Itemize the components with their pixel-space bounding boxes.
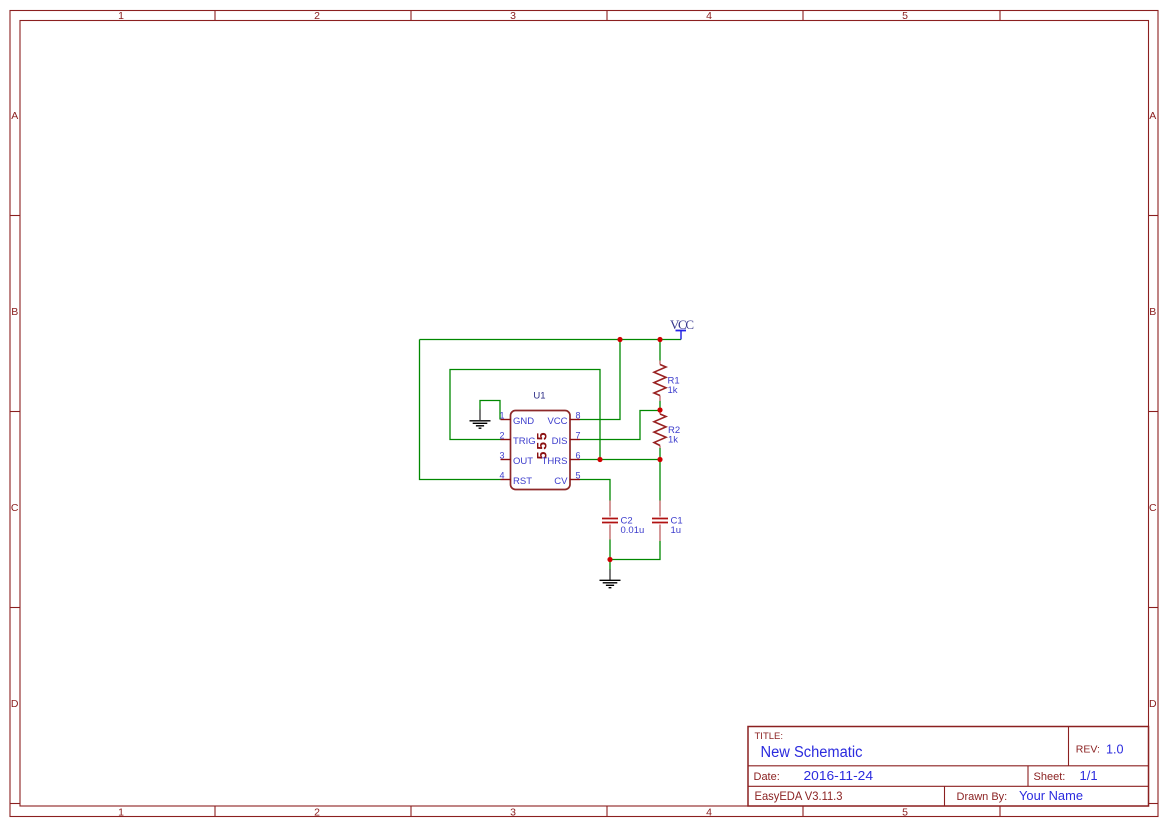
svg-text:8: 8 <box>576 411 581 421</box>
svg-text:B: B <box>1149 306 1156 318</box>
ground GND1 (pin 1) <box>470 410 491 429</box>
U1 pin 4 RST <box>499 471 532 487</box>
wire TRIG to THRS loop <box>450 370 600 460</box>
junction C2/ground <box>607 557 612 562</box>
label C1 1u <box>671 516 683 537</box>
svg-text:CV: CV <box>554 476 568 487</box>
svg-text:2: 2 <box>499 431 504 441</box>
svg-text:0.01u: 0.01u <box>621 525 645 536</box>
svg-text:1/1: 1/1 <box>1080 768 1098 783</box>
svg-text:U1: U1 <box>533 391 545 402</box>
svg-text:5: 5 <box>576 471 581 481</box>
wire RST to VCC rail (left loop) <box>420 340 501 480</box>
capacitor C2 <box>602 501 618 540</box>
svg-text:1k: 1k <box>668 385 678 396</box>
svg-text:4: 4 <box>706 10 712 22</box>
U1 pin 3 OUT <box>499 451 533 467</box>
wire VCC top rail <box>420 339 682 341</box>
label C2 0.01u <box>621 516 645 537</box>
svg-text:5: 5 <box>902 10 908 22</box>
svg-text:5: 5 <box>902 807 908 819</box>
svg-text:GND: GND <box>513 416 534 427</box>
svg-text:D: D <box>11 698 19 710</box>
wire pin8 VCC to rail <box>580 340 620 420</box>
svg-text:A: A <box>1149 110 1156 122</box>
svg-text:1k: 1k <box>668 434 678 445</box>
svg-text:1: 1 <box>118 10 124 22</box>
svg-text:REV:: REV: <box>1076 744 1100 756</box>
junction THRS/R2/C1 <box>657 457 662 462</box>
wire C2 bottom to ground node <box>609 540 611 560</box>
IC U1 555 body <box>511 411 571 490</box>
wire pin1 GND to ground <box>480 401 500 420</box>
svg-text:1u: 1u <box>671 525 682 536</box>
ground GND2 (C2/C1 bottom) <box>600 570 621 588</box>
svg-text:THRS: THRS <box>542 456 568 467</box>
svg-text:OUT: OUT <box>513 456 533 467</box>
svg-text:VCC: VCC <box>547 416 567 427</box>
svg-text:4: 4 <box>499 471 504 481</box>
svg-text:1: 1 <box>499 411 504 421</box>
power flag VCC <box>670 317 694 340</box>
U1 pin 7 DIS <box>552 431 581 447</box>
svg-text:1.0: 1.0 <box>1106 742 1124 757</box>
svg-text:C: C <box>1149 502 1157 514</box>
svg-text:TITLE:: TITLE: <box>755 731 784 742</box>
resistor R2 <box>654 410 666 460</box>
svg-text:3: 3 <box>510 10 516 22</box>
wire CV to C2 top <box>580 480 610 501</box>
wire rail to R1 top <box>659 340 661 361</box>
U1 pin 5 CV <box>554 471 580 487</box>
U1 pin 2 TRIG <box>499 431 535 447</box>
wire DIS to R1/R2 node <box>580 411 660 440</box>
resistor R1 <box>654 361 666 402</box>
svg-text:EasyEDA V3.11.3: EasyEDA V3.11.3 <box>755 789 843 803</box>
svg-text:Sheet:: Sheet: <box>1034 771 1066 783</box>
title block <box>748 727 1149 807</box>
svg-text:2: 2 <box>314 807 320 819</box>
svg-text:C: C <box>11 502 19 514</box>
capacitor C1 <box>652 501 668 542</box>
svg-text:A: A <box>11 110 18 122</box>
svg-text:1: 1 <box>118 807 124 819</box>
U1 pin 1 GND <box>499 411 534 427</box>
svg-text:Date:: Date: <box>754 771 780 783</box>
svg-text:3: 3 <box>499 451 504 461</box>
svg-text:7: 7 <box>576 431 581 441</box>
svg-text:2: 2 <box>314 10 320 22</box>
svg-text:RST: RST <box>513 476 532 487</box>
svg-text:B: B <box>11 306 18 318</box>
wire THRS to R2 bottom <box>580 459 660 461</box>
svg-text:4: 4 <box>706 807 712 819</box>
wire ground node to C1 bottom <box>610 541 660 560</box>
svg-text:3: 3 <box>510 807 516 819</box>
junction rail/R1 <box>657 337 662 342</box>
svg-text:TRIG: TRIG <box>513 436 536 447</box>
U1 pin 6 THRS <box>542 451 581 467</box>
svg-text:6: 6 <box>576 451 581 461</box>
svg-text:Drawn By:: Drawn By: <box>957 791 1008 803</box>
svg-text:New Schematic: New Schematic <box>761 744 863 761</box>
svg-text:DIS: DIS <box>552 436 568 447</box>
label R1 1k <box>668 376 680 397</box>
wire R1 bottom to node <box>659 401 661 411</box>
wire THRS node to C1 top <box>659 460 661 501</box>
junction R1/R2/DIS <box>657 407 662 412</box>
junction rail/pin8 <box>617 337 622 342</box>
junction THRS/TRIG loop <box>597 457 602 462</box>
svg-text:VCC: VCC <box>670 317 694 332</box>
svg-text:Your Name: Your Name <box>1019 788 1083 803</box>
U1 pin 8 VCC <box>547 411 580 427</box>
svg-text:D: D <box>1149 698 1157 710</box>
label R2 1k <box>668 425 680 446</box>
svg-text:2016-11-24: 2016-11-24 <box>804 768 874 783</box>
